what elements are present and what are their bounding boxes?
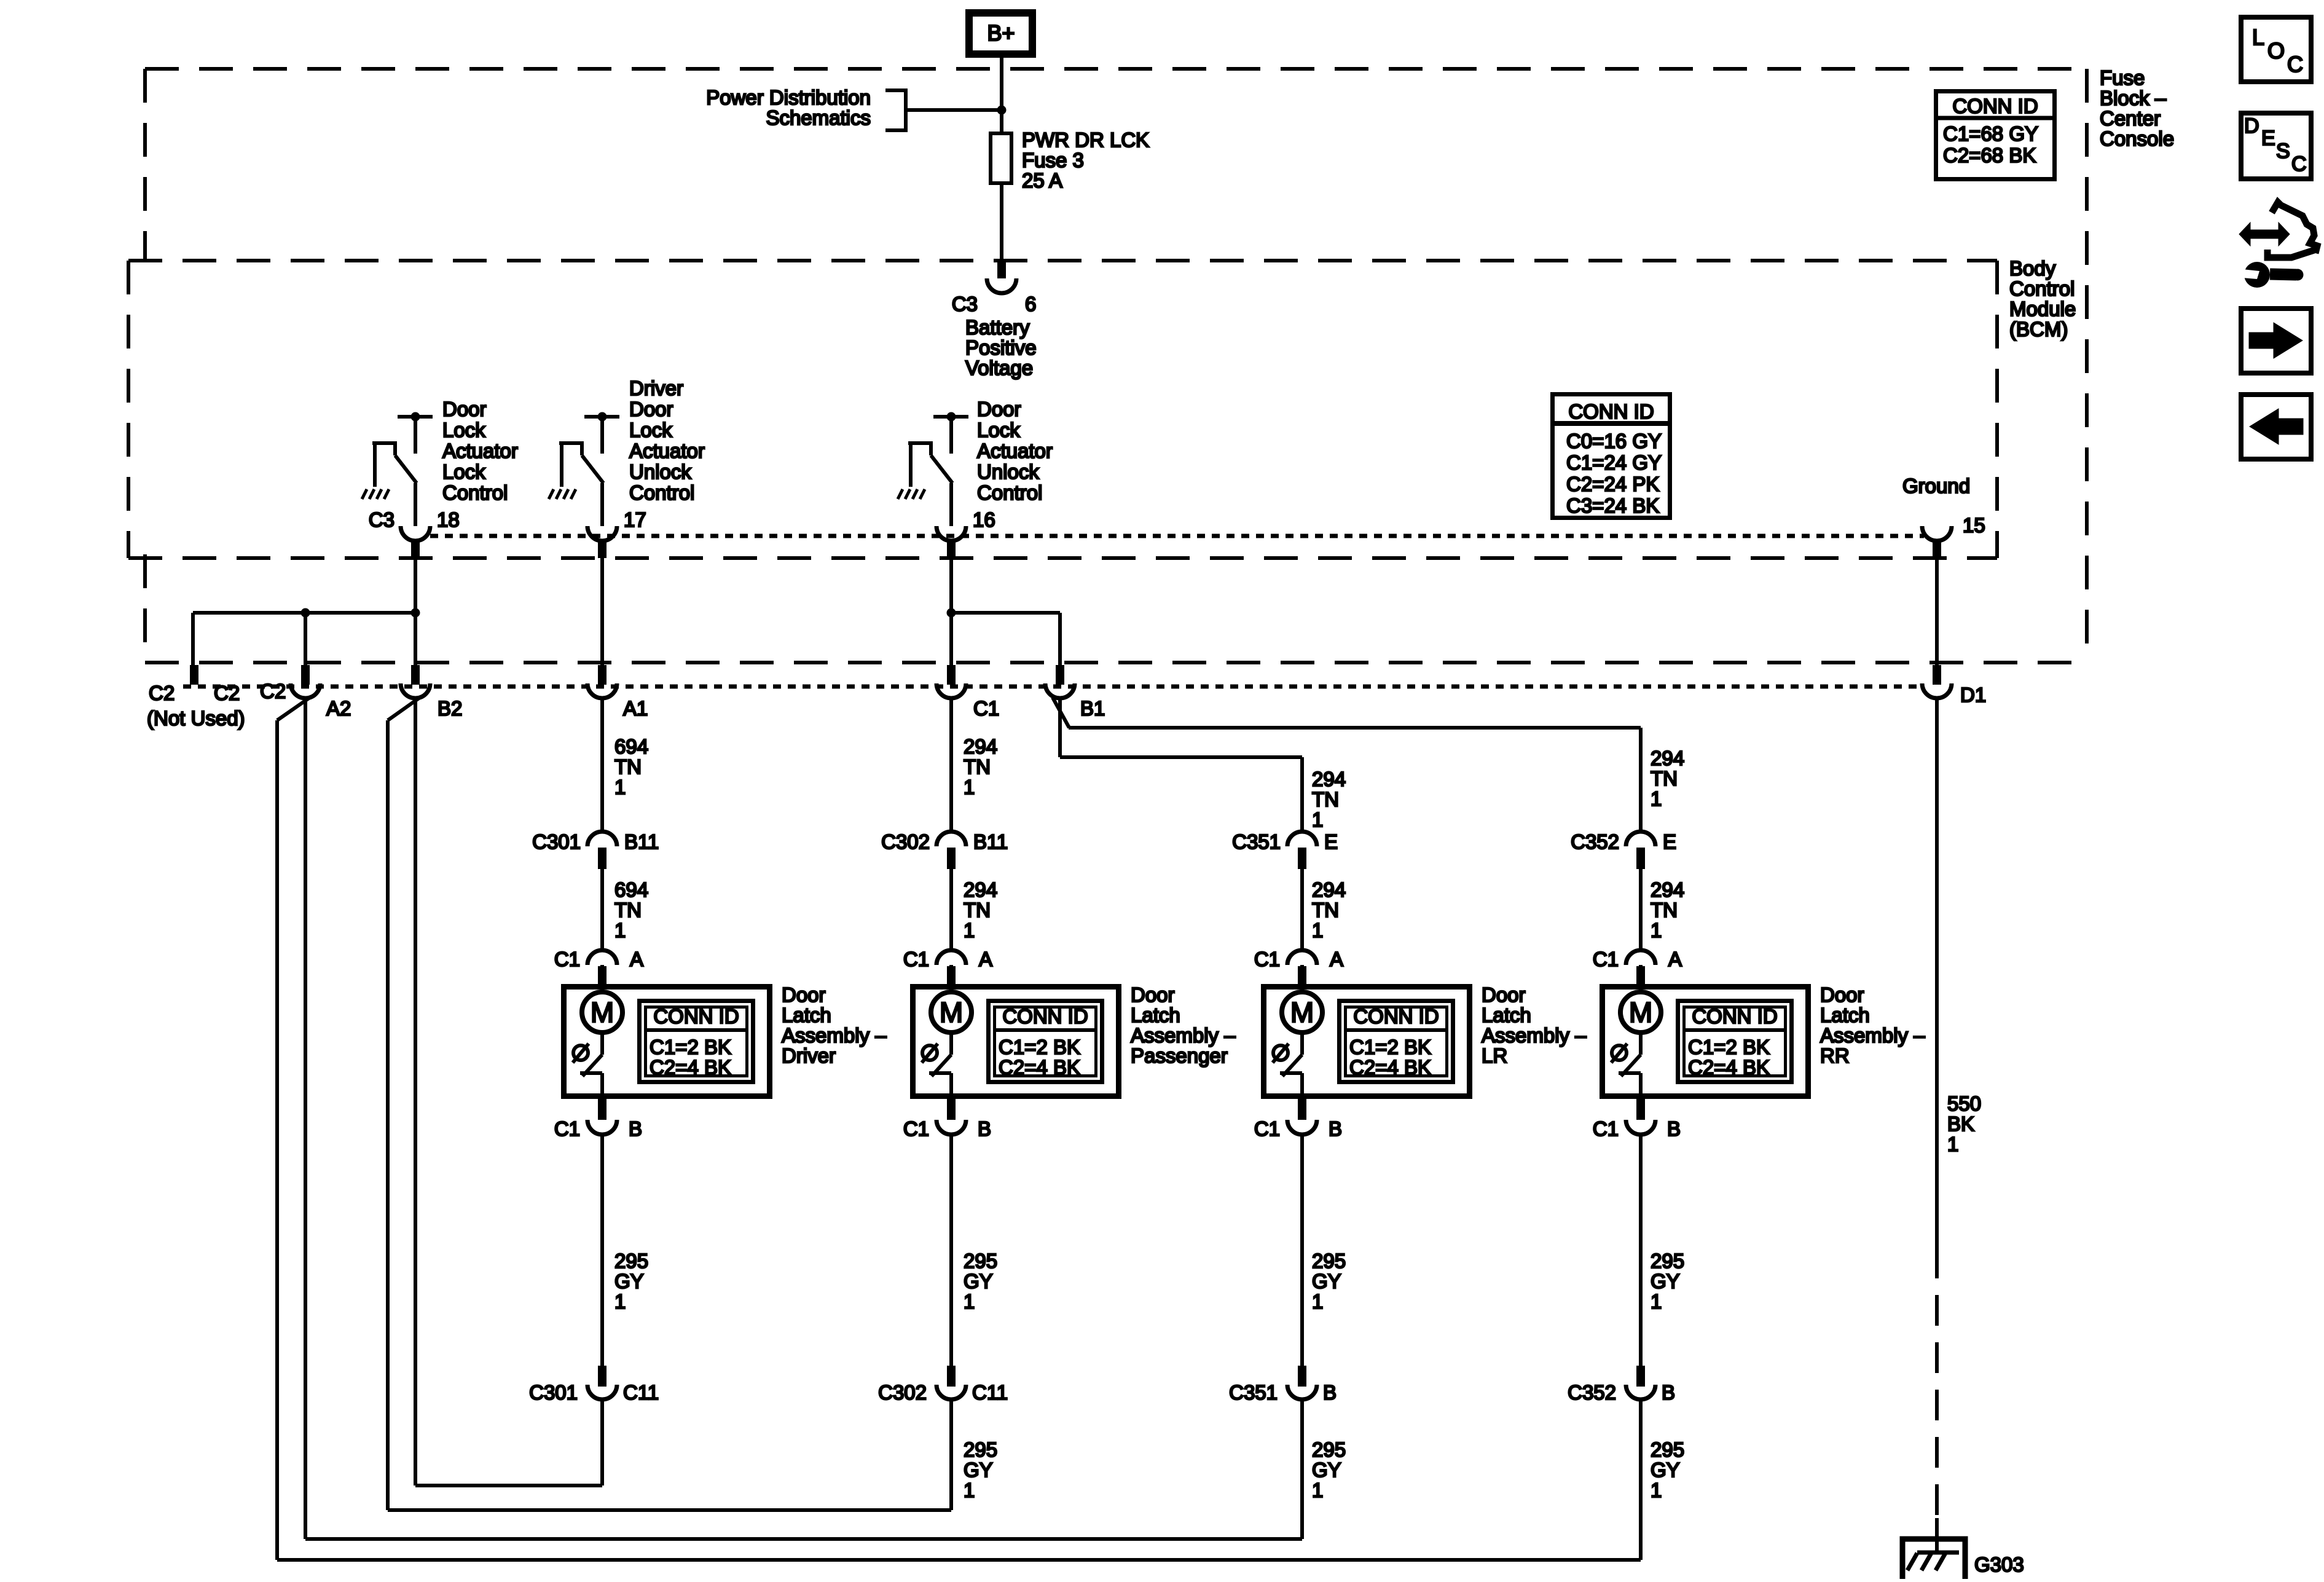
svg-text:C2=4 BK: C2=4 BK — [999, 1056, 1080, 1079]
svg-text:Positive: Positive — [965, 336, 1037, 359]
svg-text:LR: LR — [1482, 1044, 1507, 1067]
svg-text:Battery: Battery — [965, 316, 1030, 339]
svg-text:C1: C1 — [1254, 1117, 1280, 1140]
svg-text:C: C — [2291, 152, 2307, 176]
svg-text:E: E — [1663, 830, 1676, 853]
svg-text:TN: TN — [614, 755, 642, 778]
svg-text:Unlock: Unlock — [977, 460, 1039, 483]
svg-text:GY: GY — [614, 1270, 644, 1293]
svg-text:M: M — [940, 996, 963, 1028]
svg-text:M: M — [1290, 996, 1314, 1028]
svg-text:BK: BK — [1947, 1112, 1974, 1135]
svg-text:6: 6 — [1025, 293, 1036, 315]
svg-text:C1: C1 — [554, 1117, 580, 1140]
svg-text:1: 1 — [1312, 808, 1323, 831]
svg-text:Latch: Latch — [782, 1004, 831, 1026]
svg-text:GY: GY — [1651, 1458, 1680, 1481]
svg-text:B1: B1 — [1080, 697, 1105, 720]
svg-text:1: 1 — [964, 776, 975, 798]
svg-text:B: B — [629, 1117, 642, 1140]
svg-text:Control: Control — [629, 481, 694, 504]
svg-text:A: A — [979, 948, 992, 970]
svg-text:C301: C301 — [532, 830, 581, 853]
svg-text:B11: B11 — [973, 830, 1008, 853]
svg-text:C1: C1 — [554, 948, 580, 970]
svg-text:C1: C1 — [1593, 1117, 1619, 1140]
svg-text:C302: C302 — [878, 1381, 927, 1404]
svg-text:Assembly –: Assembly – — [1820, 1024, 1925, 1047]
svg-text:Control: Control — [2009, 277, 2075, 300]
svg-text:A: A — [1668, 948, 1682, 970]
svg-text:C11: C11 — [623, 1381, 659, 1404]
svg-text:M: M — [1629, 996, 1652, 1028]
svg-text:C2=4 BK: C2=4 BK — [1349, 1056, 1431, 1079]
svg-text:15: 15 — [1963, 514, 1985, 537]
svg-text:TN: TN — [1651, 767, 1678, 790]
svg-text:1: 1 — [1651, 1479, 1662, 1501]
svg-text:C1: C1 — [1593, 948, 1619, 970]
svg-text:Actuator: Actuator — [977, 439, 1053, 462]
svg-text:1: 1 — [614, 776, 626, 798]
svg-text:294: 294 — [964, 735, 997, 758]
svg-text:B11: B11 — [624, 830, 659, 853]
svg-text:B: B — [1323, 1381, 1337, 1404]
svg-text:TN: TN — [964, 899, 991, 921]
svg-text:Body: Body — [2009, 257, 2056, 280]
svg-text:CONN ID: CONN ID — [1568, 400, 1654, 423]
svg-text:Actuator: Actuator — [442, 439, 518, 462]
svg-text:B: B — [978, 1117, 991, 1140]
svg-text:Latch: Latch — [1820, 1004, 1870, 1026]
svg-text:17: 17 — [624, 508, 646, 531]
svg-text:Door: Door — [629, 398, 673, 420]
svg-text:18: 18 — [437, 508, 460, 531]
svg-text:GY: GY — [964, 1270, 993, 1293]
svg-text:295: 295 — [1312, 1249, 1346, 1272]
svg-text:Actuator: Actuator — [629, 439, 705, 462]
svg-text:TN: TN — [1312, 788, 1339, 811]
svg-text:C1: C1 — [903, 1117, 929, 1140]
svg-text:CONN ID: CONN ID — [1952, 95, 2038, 117]
svg-text:Latch: Latch — [1482, 1004, 1531, 1026]
svg-text:550: 550 — [1947, 1092, 1981, 1115]
svg-text:C1=2 BK: C1=2 BK — [1688, 1036, 1770, 1058]
svg-text:16: 16 — [973, 508, 995, 531]
svg-text:1: 1 — [1947, 1133, 1958, 1155]
svg-text:294: 294 — [1312, 878, 1346, 901]
svg-text:294: 294 — [964, 878, 997, 901]
svg-text:C301: C301 — [529, 1381, 578, 1404]
svg-text:C3: C3 — [952, 293, 978, 315]
svg-text:A: A — [1330, 948, 1343, 970]
svg-text:295: 295 — [964, 1438, 997, 1461]
svg-text:C351: C351 — [1232, 830, 1281, 853]
svg-text:Door: Door — [1131, 983, 1175, 1006]
svg-text:C2=24 PK: C2=24 PK — [1566, 473, 1659, 495]
svg-text:C1=2 BK: C1=2 BK — [1349, 1036, 1431, 1058]
svg-text:694: 694 — [614, 735, 648, 758]
svg-text:C2=4 BK: C2=4 BK — [650, 1056, 731, 1079]
svg-text:Door: Door — [1482, 983, 1526, 1006]
svg-text:C2=4 BK: C2=4 BK — [1688, 1056, 1770, 1079]
svg-text:C1=2 BK: C1=2 BK — [650, 1036, 731, 1058]
svg-text:295: 295 — [1651, 1249, 1684, 1272]
svg-text:Door: Door — [442, 398, 487, 420]
svg-text:294: 294 — [1651, 747, 1684, 769]
svg-text:(Not Used): (Not Used) — [147, 707, 245, 730]
svg-text:Lock: Lock — [442, 419, 485, 441]
svg-text:TN: TN — [1651, 899, 1678, 921]
svg-text:1: 1 — [1312, 919, 1323, 942]
svg-text:295: 295 — [1312, 1438, 1346, 1461]
svg-text:RR: RR — [1820, 1044, 1850, 1067]
svg-text:Assembly –: Assembly – — [1131, 1024, 1236, 1047]
svg-text:Control: Control — [977, 481, 1042, 504]
svg-text:C1=2 BK: C1=2 BK — [999, 1036, 1080, 1058]
svg-text:Control: Control — [442, 481, 508, 504]
svg-text:C1: C1 — [1254, 948, 1280, 970]
svg-text:Power Distribution: Power Distribution — [706, 86, 871, 109]
svg-text:A2: A2 — [326, 697, 351, 720]
svg-text:L: L — [2252, 25, 2264, 50]
svg-text:Schematics: Schematics — [766, 106, 871, 129]
svg-text:C2: C2 — [214, 682, 240, 704]
svg-text:295: 295 — [614, 1249, 648, 1272]
svg-text:1: 1 — [1651, 919, 1662, 942]
svg-text:295: 295 — [964, 1249, 997, 1272]
svg-text:1: 1 — [964, 919, 975, 942]
svg-text:C2: C2 — [149, 682, 175, 704]
svg-text:GY: GY — [1651, 1270, 1680, 1293]
svg-text:C351: C351 — [1229, 1381, 1278, 1404]
svg-text:Unlock: Unlock — [629, 460, 691, 483]
svg-text:1: 1 — [964, 1479, 975, 1501]
svg-text:D: D — [2244, 114, 2259, 138]
svg-text:1: 1 — [1312, 1290, 1323, 1313]
svg-text:B+: B+ — [987, 20, 1015, 45]
svg-text:C352: C352 — [1571, 830, 1619, 853]
svg-text:Door: Door — [782, 983, 826, 1006]
svg-text:C1: C1 — [903, 948, 929, 970]
svg-text:Console: Console — [2100, 127, 2174, 150]
svg-text:1: 1 — [614, 919, 626, 942]
svg-text:Lock: Lock — [629, 419, 672, 441]
svg-text:C1: C1 — [973, 697, 999, 720]
svg-text:Door: Door — [1820, 983, 1864, 1006]
svg-text:Passenger: Passenger — [1131, 1044, 1228, 1067]
svg-text:Center: Center — [2100, 107, 2161, 130]
svg-text:TN: TN — [614, 899, 642, 921]
svg-text:TN: TN — [964, 755, 991, 778]
svg-text:Voltage: Voltage — [965, 356, 1033, 379]
svg-text:Block –: Block – — [2100, 87, 2167, 109]
svg-text:1: 1 — [1312, 1479, 1323, 1501]
svg-text:Driver: Driver — [629, 377, 683, 399]
svg-text:295: 295 — [1651, 1438, 1684, 1461]
svg-text:C3: C3 — [369, 508, 395, 531]
svg-text:GY: GY — [1312, 1458, 1341, 1481]
svg-text:Fuse 3: Fuse 3 — [1022, 149, 1084, 171]
svg-text:1: 1 — [1651, 787, 1662, 810]
svg-text:B: B — [1667, 1117, 1681, 1140]
svg-text:C1=24 GY: C1=24 GY — [1566, 451, 1662, 474]
svg-text:C302: C302 — [881, 830, 930, 853]
svg-text:B2: B2 — [438, 697, 462, 720]
svg-text:Driver: Driver — [782, 1044, 836, 1067]
svg-text:294: 294 — [1651, 878, 1684, 901]
svg-text:Module: Module — [2009, 297, 2076, 320]
svg-text:C352: C352 — [1568, 1381, 1616, 1404]
svg-text:694: 694 — [614, 878, 648, 901]
svg-text:1: 1 — [614, 1290, 626, 1313]
svg-text:C11: C11 — [972, 1381, 1008, 1404]
svg-text:PWR DR LCK: PWR DR LCK — [1022, 128, 1149, 151]
svg-text:1: 1 — [964, 1290, 975, 1313]
svg-text:S: S — [2276, 140, 2290, 163]
svg-text:G303: G303 — [1974, 1553, 2024, 1576]
svg-text:CONN ID: CONN ID — [653, 1005, 739, 1028]
svg-text:E: E — [2261, 127, 2275, 150]
svg-text:CONN ID: CONN ID — [1353, 1005, 1439, 1028]
svg-text:C0=16 GY: C0=16 GY — [1566, 430, 1662, 452]
svg-text:GY: GY — [964, 1458, 993, 1481]
svg-text:TN: TN — [1312, 899, 1339, 921]
svg-text:Assembly –: Assembly – — [782, 1024, 887, 1047]
svg-text:Door: Door — [977, 398, 1021, 420]
svg-text:O: O — [2267, 38, 2285, 63]
svg-text:294: 294 — [1312, 768, 1346, 790]
svg-text:D1: D1 — [1960, 683, 1986, 706]
svg-text:25 A: 25 A — [1022, 169, 1062, 192]
svg-text:Lock: Lock — [442, 460, 485, 483]
svg-text:Ground: Ground — [1902, 474, 1970, 497]
svg-text:CONN ID: CONN ID — [1692, 1005, 1777, 1028]
svg-text:Lock: Lock — [977, 419, 1020, 441]
svg-text:B: B — [1662, 1381, 1675, 1404]
svg-text:C: C — [2287, 52, 2303, 77]
svg-text:B: B — [1329, 1117, 1342, 1140]
svg-text:E: E — [1324, 830, 1338, 853]
svg-text:A: A — [630, 948, 643, 970]
svg-text:Fuse: Fuse — [2100, 66, 2145, 89]
svg-text:CONN ID: CONN ID — [1002, 1005, 1088, 1028]
svg-text:C2=68 BK: C2=68 BK — [1943, 144, 2036, 167]
svg-text:(BCM): (BCM) — [2009, 318, 2068, 340]
svg-text:C1=68 GY: C1=68 GY — [1943, 122, 2038, 145]
svg-text:GY: GY — [1312, 1270, 1341, 1293]
svg-text:Latch: Latch — [1131, 1004, 1180, 1026]
svg-text:C2: C2 — [260, 680, 286, 702]
svg-text:1: 1 — [1651, 1290, 1662, 1313]
svg-text:C3=24 BK: C3=24 BK — [1566, 494, 1659, 517]
svg-text:Assembly –: Assembly – — [1482, 1024, 1587, 1047]
svg-text:A1: A1 — [623, 697, 648, 720]
svg-text:M: M — [591, 996, 614, 1028]
